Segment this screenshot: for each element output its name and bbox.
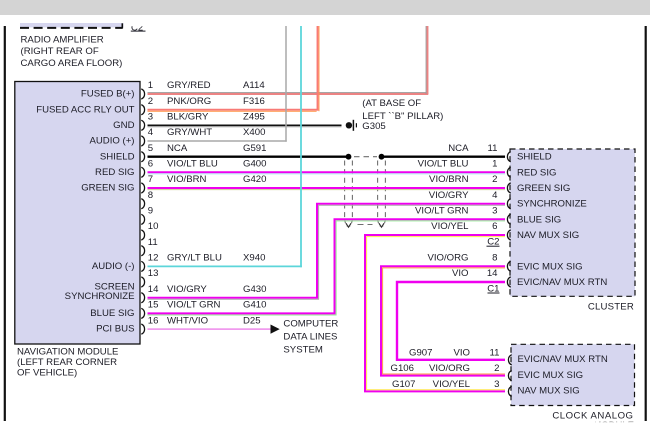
svg-text:NCA: NCA xyxy=(167,143,188,154)
svg-text:Z495: Z495 xyxy=(243,112,265,123)
svg-text:EVIC MUX SIG: EVIC MUX SIG xyxy=(518,370,584,381)
svg-text:FUSED B(+): FUSED B(+) xyxy=(81,89,135,100)
svg-text:WHT/VIO: WHT/VIO xyxy=(167,315,208,326)
svg-text:6: 6 xyxy=(492,221,497,232)
svg-text:7: 7 xyxy=(148,174,153,185)
svg-text:SYNCHRONIZE: SYNCHRONIZE xyxy=(65,291,135,302)
svg-text:2: 2 xyxy=(492,174,497,185)
svg-text:GRY/WHT: GRY/WHT xyxy=(167,127,212,138)
svg-text:EVIC/NAV MUX RTN: EVIC/NAV MUX RTN xyxy=(518,354,608,365)
svg-text:11: 11 xyxy=(148,237,158,248)
svg-text:G400: G400 xyxy=(243,159,266,170)
svg-text:GRY/RED: GRY/RED xyxy=(167,80,211,91)
svg-text:2: 2 xyxy=(148,96,153,107)
svg-text:OF VEHICLE): OF VEHICLE) xyxy=(17,368,77,379)
svg-text:VIO/GRY: VIO/GRY xyxy=(429,190,469,201)
svg-text:NAV MUX SIG: NAV MUX SIG xyxy=(518,386,580,397)
svg-text:SYNCHRONIZE: SYNCHRONIZE xyxy=(517,199,587,210)
svg-text:GND: GND xyxy=(113,120,134,131)
svg-text:4: 4 xyxy=(148,127,154,138)
svg-text:VIO/ORG: VIO/ORG xyxy=(429,363,470,374)
svg-text:X400: X400 xyxy=(243,127,265,138)
svg-text:6: 6 xyxy=(148,159,153,170)
svg-text:16: 16 xyxy=(148,315,159,326)
svg-text:VIO: VIO xyxy=(453,347,470,358)
svg-text:VIO/LT GRN: VIO/LT GRN xyxy=(167,300,221,311)
svg-text:11: 11 xyxy=(490,347,500,358)
svg-text:VIO/LT BLU: VIO/LT BLU xyxy=(418,159,469,170)
svg-text:G591: G591 xyxy=(243,143,266,154)
svg-text:VIO/LT GRN: VIO/LT GRN xyxy=(415,206,469,217)
svg-text:BLUE SIG: BLUE SIG xyxy=(90,308,134,319)
svg-text:G907: G907 xyxy=(409,347,432,358)
svg-text:EVIC/NAV MUX RTN: EVIC/NAV MUX RTN xyxy=(517,277,607,288)
svg-text:G430: G430 xyxy=(243,284,266,295)
svg-text:SYSTEM: SYSTEM xyxy=(283,345,322,356)
svg-text:G305: G305 xyxy=(362,121,385,132)
svg-text:CLUSTER: CLUSTER xyxy=(588,301,634,312)
svg-text:9: 9 xyxy=(148,206,153,217)
svg-text:12: 12 xyxy=(148,253,159,264)
svg-text:BLK/GRY: BLK/GRY xyxy=(167,112,209,123)
svg-text:11: 11 xyxy=(488,143,498,154)
svg-text:NAVIGATION MODULE: NAVIGATION MODULE xyxy=(17,346,118,357)
svg-text:10: 10 xyxy=(148,221,159,232)
svg-text:D25: D25 xyxy=(243,315,261,326)
svg-text:G420: G420 xyxy=(243,174,266,185)
svg-text:GREEN SIG: GREEN SIG xyxy=(517,183,570,194)
svg-text:PCI BUS: PCI BUS xyxy=(96,324,134,335)
svg-text:RED SIG: RED SIG xyxy=(95,167,134,178)
svg-text:3: 3 xyxy=(494,379,499,390)
svg-text:15: 15 xyxy=(148,300,159,311)
svg-text:1: 1 xyxy=(148,80,153,91)
svg-text:F316: F316 xyxy=(243,96,265,107)
svg-text:G410: G410 xyxy=(243,300,266,311)
svg-text:(LEFT REAR CORNER: (LEFT REAR CORNER xyxy=(17,357,117,368)
svg-text:14: 14 xyxy=(148,284,159,295)
svg-text:VIO: VIO xyxy=(452,268,469,279)
svg-text:5: 5 xyxy=(148,143,153,154)
svg-text:G106: G106 xyxy=(391,363,414,374)
svg-text:PNK/ORG: PNK/ORG xyxy=(167,96,211,107)
svg-text:GRY/LT BLU: GRY/LT BLU xyxy=(167,253,222,264)
svg-text:COMPUTER: COMPUTER xyxy=(283,319,338,330)
svg-text:FUSED ACC RLY OUT: FUSED ACC RLY OUT xyxy=(36,104,134,115)
svg-text:4: 4 xyxy=(492,190,498,201)
svg-text:3: 3 xyxy=(148,112,153,123)
svg-text:VIO/YEL: VIO/YEL xyxy=(431,221,469,232)
svg-text:AUDIO (-): AUDIO (-) xyxy=(92,261,135,272)
svg-text:1: 1 xyxy=(492,159,497,170)
svg-text:2: 2 xyxy=(494,363,499,374)
svg-text:8: 8 xyxy=(492,253,497,264)
svg-text:RED SIG: RED SIG xyxy=(517,167,556,178)
svg-text:AUDIO (+): AUDIO (+) xyxy=(89,136,134,147)
svg-text:VIO/BRN: VIO/BRN xyxy=(167,174,207,185)
svg-text:X940: X940 xyxy=(243,253,265,264)
svg-text:SHIELD: SHIELD xyxy=(100,151,135,162)
svg-text:EVIC MUX SIG: EVIC MUX SIG xyxy=(517,261,583,272)
svg-text:SHIELD: SHIELD xyxy=(517,152,552,163)
svg-text:VIO/LT BLU: VIO/LT BLU xyxy=(167,159,218,170)
svg-text:G107: G107 xyxy=(392,379,415,390)
svg-text:3: 3 xyxy=(492,206,497,217)
svg-text:BLUE SIG: BLUE SIG xyxy=(517,214,561,225)
svg-text:VIO/GRY: VIO/GRY xyxy=(167,284,207,295)
svg-text:A114: A114 xyxy=(243,80,265,91)
svg-text:GREEN SIG: GREEN SIG xyxy=(81,183,134,194)
svg-text:(RIGHT REAR OF: (RIGHT REAR OF xyxy=(21,46,99,57)
svg-text:DATA LINES: DATA LINES xyxy=(283,332,337,343)
svg-text:(AT BASE OF: (AT BASE OF xyxy=(362,98,421,109)
svg-text:14: 14 xyxy=(487,268,498,279)
svg-text:VIO/YEL: VIO/YEL xyxy=(433,379,471,390)
svg-text:13: 13 xyxy=(148,268,159,279)
svg-text:CARGO AREA FLOOR): CARGO AREA FLOOR) xyxy=(21,58,123,69)
svg-text:VIO/ORG: VIO/ORG xyxy=(427,253,468,264)
svg-text:NCA: NCA xyxy=(448,143,469,154)
svg-text:RADIO AMPLIFIER: RADIO AMPLIFIER xyxy=(21,35,104,46)
svg-text:VIO/BRN: VIO/BRN xyxy=(429,174,469,185)
svg-text:8: 8 xyxy=(148,190,153,201)
svg-text:NAV MUX SIG: NAV MUX SIG xyxy=(517,230,579,241)
